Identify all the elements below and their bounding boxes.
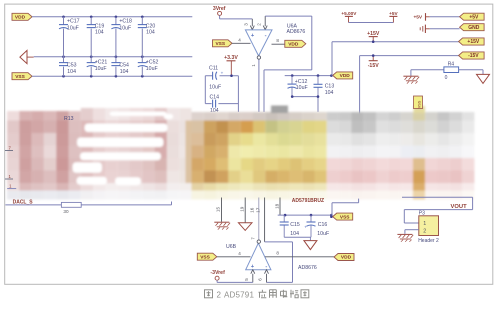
wire C12/C13 bottom join [292, 96, 318, 98]
svg-text:3: 3 [244, 23, 249, 26]
capacitor C53 [63, 57, 65, 63]
svg-text:C11: C11 [209, 65, 218, 71]
svg-text:-15V: -15V [368, 63, 379, 69]
wire VSS to U6B pin 4 [217, 256, 251, 258]
svg-text:VDD: VDD [15, 15, 26, 21]
pin 2 arrow into U6A [263, 26, 267, 30]
input arrow port (left) [20, 50, 27, 63]
svg-text:2: 2 [423, 229, 426, 235]
sheet port -15V [459, 52, 485, 59]
svg-text:+5V: +5V [389, 11, 398, 16]
svg-text:VDD: VDD [288, 42, 299, 48]
power port +5V (bar) [389, 15, 397, 17]
power port -15V [372, 56, 374, 61]
svg-text:+15V: +15V [367, 31, 380, 37]
wire C11/C14 left leg [204, 76, 206, 104]
wire +5.00V to +5V [349, 22, 394, 24]
svg-text:104: 104 [146, 30, 155, 36]
power port +5.00V [345, 15, 353, 17]
svg-text:1: 1 [423, 221, 426, 227]
svg-text:10uF: 10uF [317, 231, 329, 237]
svg-text:15: 15 [216, 207, 221, 213]
svg-text:AD5791BRUZ: AD5791BRUZ [292, 198, 324, 204]
svg-text:10uF: 10uF [296, 85, 308, 91]
svg-text:10uF: 10uF [146, 66, 158, 72]
svg-text:+5.00V: +5.00V [341, 11, 357, 16]
svg-text:+15V: +15V [467, 39, 479, 45]
wire VDD decoupling rail [285, 75, 333, 77]
svg-text:2: 2 [256, 23, 261, 26]
svg-text:+5V: +5V [413, 15, 422, 21]
wire P3 pin 2 to ground [405, 229, 419, 231]
svg-text:-: - [265, 33, 267, 39]
power port VDD for U6A pin 8 [285, 40, 306, 47]
wire C11 rail [205, 75, 238, 77]
svg-text:VSS: VSS [200, 254, 210, 260]
pin 6 arrow into U6B [265, 270, 269, 274]
svg-text:Header 2: Header 2 [418, 238, 439, 244]
op-amp U6A [245, 30, 272, 56]
svg-text:2: 2 [217, 290, 222, 299]
earth ground P3 [397, 233, 412, 235]
svg-text:AD8676: AD8676 [287, 29, 306, 35]
capacitor C14 [205, 103, 238, 105]
svg-text:AD8676: AD8676 [298, 265, 317, 271]
earth ground pin 15 [214, 221, 229, 223]
series element 30 [61, 202, 81, 207]
wire VSS to U6A pin 4 [232, 42, 251, 44]
sheet port +15V [459, 38, 485, 45]
wire DACL [5, 204, 171, 206]
svg-text:VSS: VSS [215, 41, 225, 47]
svg-text:16: 16 [250, 207, 255, 213]
wire pin 16 to U6B output [258, 198, 260, 240]
power port VSS (mid) [333, 213, 353, 220]
svg-text:C16: C16 [318, 222, 328, 228]
wire VCC rail down into DAC [237, 76, 239, 112]
power port +3.3V [227, 60, 236, 62]
capacitor C17 [63, 17, 65, 25]
wire U6A pin 8 to VDD [272, 43, 285, 45]
svg-text:8: 8 [276, 251, 279, 256]
power port VDD (DAC supply) [333, 72, 353, 79]
svg-text:+C18: +C18 [119, 19, 132, 25]
wire 3Vref to U6A +input [219, 15, 221, 19]
svg-text:C15: C15 [290, 222, 300, 228]
left border pin stub 7 [5, 150, 13, 152]
svg-text:VSS: VSS [340, 214, 350, 220]
svg-text:R13: R13 [64, 116, 74, 122]
svg-text:18: 18 [274, 203, 279, 209]
wire -15V rail down into DAC VSS [359, 56, 361, 115]
power port VDD (top left) [12, 13, 32, 20]
node junctions on middle rail [62, 55, 65, 58]
svg-text:U6B: U6B [226, 244, 237, 250]
svg-text:5: 5 [244, 278, 249, 281]
svg-text:C19: C19 [95, 23, 105, 29]
pin 5 arrow into U6B [251, 270, 255, 274]
svg-text:10uF: 10uF [67, 26, 79, 32]
svg-text:+C12: +C12 [295, 79, 308, 85]
caption: fig 2 AD5791 application circuit [205, 290, 213, 298]
wire C15/C16 bottom join [284, 236, 311, 238]
wire middle rail [34, 56, 193, 58]
power port +15V [369, 36, 378, 38]
pin 18 wire [279, 198, 281, 216]
wire to GND tag [430, 28, 460, 30]
left border pin stub 1 [5, 178, 13, 180]
svg-text:104: 104 [67, 69, 76, 75]
svg-text:VDD: VDD [341, 255, 352, 261]
svg-text:C54: C54 [119, 63, 129, 69]
ground triangle below C16 [304, 241, 317, 250]
svg-text:4: 4 [238, 37, 241, 42]
capacitor C21 [90, 57, 92, 63]
wire C15/C16 rail [278, 214, 332, 216]
svg-text:104: 104 [325, 90, 334, 96]
wire right of R4 [459, 69, 483, 71]
svg-text:VSS: VSS [417, 100, 421, 108]
capacitor C19 [90, 17, 92, 25]
capacitor C11 [213, 72, 220, 80]
svg-text:GND: GND [468, 25, 480, 31]
svg-text:10uF: 10uF [119, 26, 131, 32]
power port VSS for U6A pin 4 [213, 40, 233, 47]
pin 19 wire [244, 198, 246, 223]
svg-text:VDD: VDD [340, 73, 351, 79]
capacitor C20 [141, 17, 143, 25]
pin 3 arrow into U6A [250, 26, 254, 30]
ground triangle right of R4 [477, 74, 490, 83]
svg-text:4: 4 [238, 251, 241, 256]
svg-text:C14: C14 [210, 94, 220, 100]
svg-text:10uF: 10uF [95, 66, 107, 72]
wire pin 17 feedback loop to U6B -input [264, 198, 266, 242]
wire U6A feedback loop pin2 [264, 16, 266, 26]
wire VSS rail [32, 75, 192, 77]
power port VSS (top left) [12, 73, 32, 80]
svg-text:104: 104 [290, 231, 299, 237]
wire U6A feedback sense into DAC [263, 70, 265, 112]
wire DAC VOUT [402, 196, 473, 198]
svg-text:C20: C20 [146, 23, 156, 29]
pixelated watermark mosaic overlay [7, 106, 474, 200]
pin 15 wire [221, 198, 223, 222]
capacitor C12 [291, 76, 293, 84]
svg-text:104: 104 [95, 30, 104, 36]
wire U6B pin 8 to VDD [265, 256, 334, 258]
svg-text:-3Vref: -3Vref [210, 270, 225, 276]
svg-text:8: 8 [276, 38, 279, 43]
svg-text:AD5791: AD5791 [224, 290, 254, 299]
svg-text:VSS: VSS [15, 74, 25, 80]
wire to +5V tag [430, 16, 460, 18]
svg-text:19: 19 [239, 206, 244, 212]
svg-text:+C21: +C21 [95, 59, 108, 65]
svg-text:C53: C53 [67, 63, 77, 69]
capacitor C13 [317, 76, 319, 85]
wire left of R4 [411, 69, 444, 71]
svg-text:30: 30 [63, 209, 69, 214]
sheet port +5V [460, 13, 485, 20]
wire +15V rail [332, 41, 459, 43]
capacitor C16 [310, 215, 312, 222]
svg-text:+: + [221, 70, 224, 75]
power port VDD for U6B pin 8 [334, 254, 354, 261]
earth ground under R4 left [403, 75, 418, 77]
wire -3Vref to U6B +input [216, 280, 218, 282]
svg-text:-15V: -15V [468, 53, 479, 59]
svg-text:10uF: 10uF [209, 84, 221, 90]
svg-text:C13: C13 [325, 84, 335, 90]
svg-text:17: 17 [255, 207, 260, 213]
svg-text:+C52: +C52 [146, 59, 159, 65]
svg-text:+C17: +C17 [67, 19, 80, 25]
wire VDD rail [32, 16, 192, 18]
svg-text:+5V: +5V [469, 14, 479, 20]
svg-text:104: 104 [120, 69, 129, 75]
small rotated net tag above DAC [414, 96, 423, 109]
svg-text:0: 0 [445, 75, 448, 81]
capacitor C52 [141, 57, 143, 63]
svg-text:+3.3V: +3.3V [224, 55, 238, 61]
power port VSS for U6B pin 4 [197, 253, 217, 260]
ground triangle pin 19 [238, 223, 252, 231]
op-amp U6B [246, 243, 271, 270]
capacitor C18 [115, 17, 117, 25]
wire C12/C13 ground return into DAC [317, 97, 319, 112]
svg-text:3Vref: 3Vref [213, 6, 226, 12]
svg-text:VOUT: VOUT [451, 204, 468, 210]
power port GND (bars) [419, 27, 421, 30]
svg-text:+: + [304, 224, 307, 229]
wire -15V rail [360, 55, 459, 57]
sheet port GND [460, 24, 485, 31]
capacitor C15 [283, 215, 285, 222]
node junctions on VSS rail [62, 75, 65, 78]
node junctions on VDD rail [62, 15, 65, 18]
svg-text:6: 6 [257, 278, 262, 281]
wire U6A output to DAC VREFP pin [258, 59, 260, 112]
wire DAC VSS pin to VSS tag [358, 199, 360, 203]
capacitor C54 [115, 57, 117, 63]
